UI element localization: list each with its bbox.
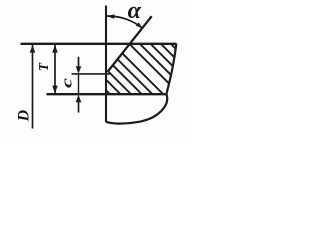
svg-text:c: c	[59, 77, 75, 88]
right break-line outline of part	[166, 44, 176, 94]
bore edge vertical line	[105, 6, 107, 123]
svg-text:T: T	[36, 62, 51, 71]
chamfer line	[108, 16, 152, 72]
top surface line / extension line	[21, 43, 177, 45]
arc arrowhead right	[136, 22, 143, 28]
arc arrowhead left	[106, 14, 114, 18]
arrowhead D top	[30, 45, 36, 53]
foot outline curve	[106, 94, 167, 124]
c upper arrow tail	[78, 57, 80, 68]
dimension line D	[32, 44, 34, 128]
arrowhead T top	[52, 45, 58, 53]
dimension line T	[54, 44, 56, 93]
arrowhead c top (pointing down)	[76, 66, 82, 73]
arrowhead T bottom	[52, 86, 58, 94]
extension line for chamfer depth c	[72, 73, 110, 75]
arrowhead c bottom (pointing up)	[76, 95, 82, 103]
bottom surface line / extension line	[47, 93, 167, 95]
angle dimension arc	[106, 16, 142, 28]
c lower arrow tail	[78, 101, 80, 113]
svg-text:α: α	[128, 0, 142, 24]
hatching of cross-section	[54, 38, 227, 100]
svg-text:D: D	[16, 109, 33, 122]
dimension line c	[78, 74, 80, 94]
